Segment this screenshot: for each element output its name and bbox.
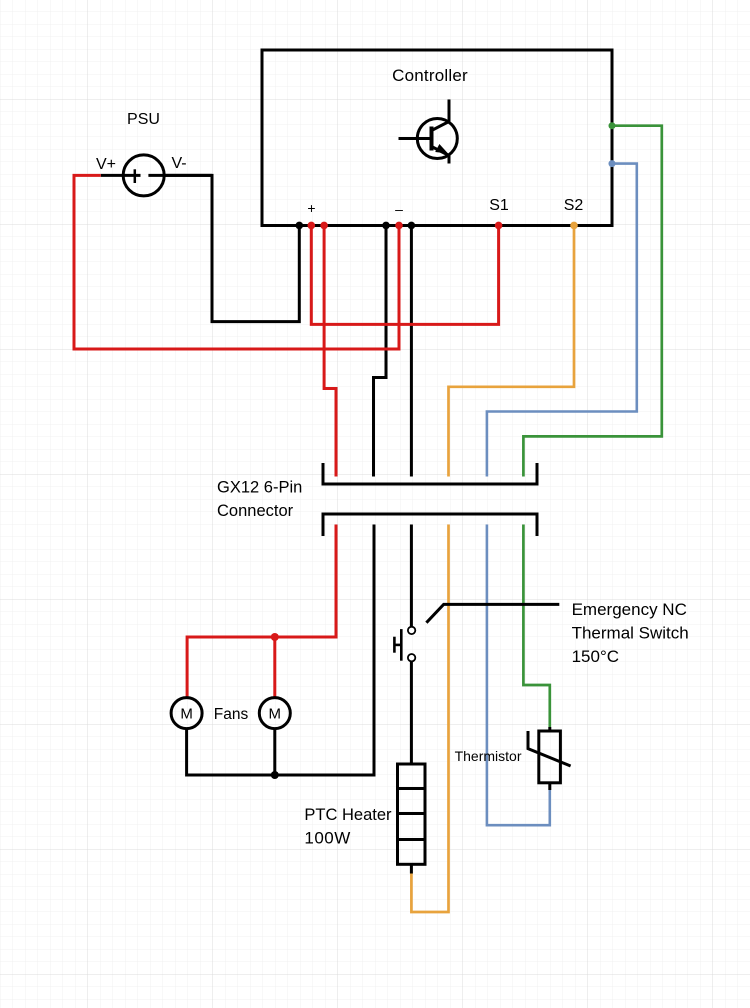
svg-text:Emergency NC: Emergency NC [572, 600, 687, 619]
svg-text:150°C: 150°C [572, 647, 619, 666]
svg-text:V-: V- [171, 155, 186, 172]
svg-text:Thermistor: Thermistor [455, 748, 522, 764]
svg-text:M: M [180, 706, 193, 723]
svg-text:Controller: Controller [392, 66, 468, 85]
svg-text:–: – [395, 201, 403, 217]
svg-text:S1: S1 [489, 197, 509, 214]
svg-text:PTC Heater: PTC Heater [304, 806, 392, 824]
svg-text:V+: V+ [96, 156, 116, 173]
svg-text:GX12 6-Pin: GX12 6-Pin [217, 479, 302, 497]
svg-text:100W: 100W [304, 829, 350, 848]
svg-text:S2: S2 [564, 197, 584, 214]
svg-text:M: M [269, 706, 282, 723]
svg-text:Connector: Connector [217, 502, 294, 520]
svg-text:Thermal Switch: Thermal Switch [572, 624, 689, 643]
svg-text:PSU: PSU [127, 111, 160, 128]
svg-text:Fans: Fans [214, 706, 249, 723]
svg-text:+: + [307, 200, 315, 216]
